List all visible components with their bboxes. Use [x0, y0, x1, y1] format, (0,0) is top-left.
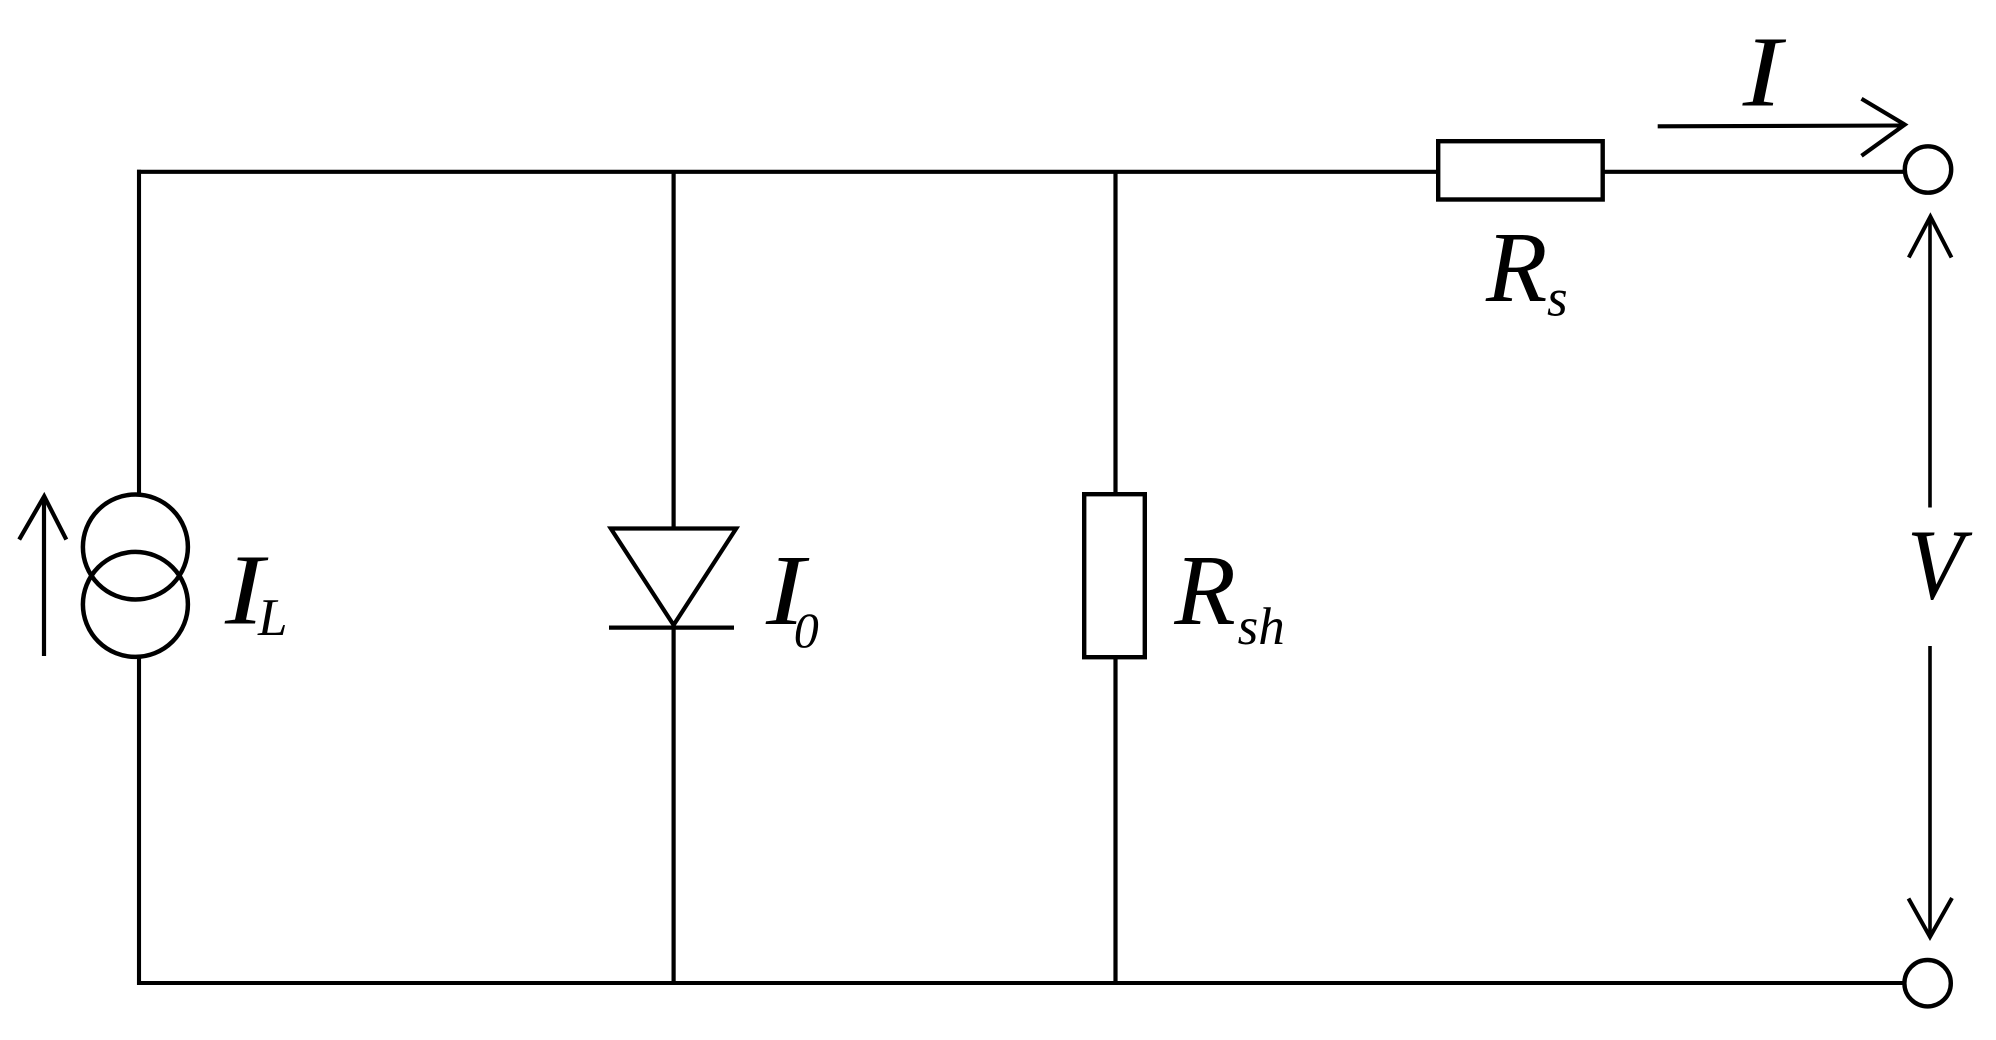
wire bottom bus	[137, 981, 1904, 985]
svg-text:I: I	[1742, 16, 1787, 128]
current source IL arrow	[42, 500, 46, 656]
svg-text:0: 0	[794, 602, 819, 658]
current I arrow	[1658, 123, 1902, 128]
resistor Rsh	[1084, 494, 1145, 657]
wire diode branch upper	[671, 172, 675, 529]
terminal bottom	[1904, 960, 1950, 1006]
wire top bus right segment	[1603, 170, 1904, 174]
diode D1 cathode bar	[609, 625, 734, 629]
terminal top	[1905, 146, 1951, 192]
wire Rsh branch upper	[1113, 172, 1117, 494]
wire Rsh branch lower	[1113, 658, 1117, 984]
svg-text:sh: sh	[1238, 598, 1285, 656]
svg-text:L: L	[257, 589, 287, 647]
svg-text:R: R	[1173, 534, 1235, 646]
diode D1 triangle	[611, 529, 736, 626]
svg-text:R: R	[1485, 211, 1547, 323]
V arrow lower (pointing down)	[1928, 646, 1932, 934]
wire left branch upper	[137, 170, 141, 494]
svg-text:s: s	[1547, 270, 1568, 328]
V arrow upper (pointing up)	[1928, 219, 1932, 508]
wire left branch lower	[137, 658, 141, 985]
wire top bus left segment	[137, 170, 1438, 174]
resistor Rs	[1438, 141, 1603, 199]
current source IL circles	[83, 495, 188, 600]
svg-text:V: V	[1907, 509, 1973, 620]
wire diode branch lower	[671, 628, 675, 983]
